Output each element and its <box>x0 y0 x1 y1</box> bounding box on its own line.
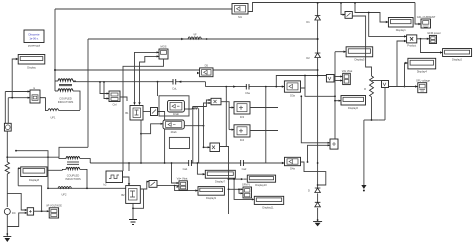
wire into SB1 <box>341 3 345 15</box>
wire into S2 <box>141 124 163 134</box>
wire into Display0 <box>12 59 18 98</box>
svg-text:1Fab: 1Fab <box>173 112 179 116</box>
wire x378 stub <box>378 119 385 121</box>
wire y163 bottom rail <box>90 162 284 164</box>
node dot (7.3,157.2) <box>6 156 8 158</box>
wire jog x205.5 <box>205 82 207 87</box>
svg-text:Display10: Display10 <box>255 183 267 187</box>
wire bottom loop to sum <box>7 213 26 227</box>
node dot x55 y70 <box>54 69 56 71</box>
wire y82 rail <box>73 81 206 83</box>
scope IP VOLTAGE <box>46 204 62 218</box>
subsystem S2 <box>163 120 184 134</box>
wires VM2 to scope2 <box>334 77 342 81</box>
svg-text:GFL voltage: GFL voltage <box>416 78 431 82</box>
wire M4 out <box>250 130 278 132</box>
svg-text:Display1: Display1 <box>396 28 407 32</box>
svg-text:Display7: Display7 <box>215 179 226 183</box>
node dot chain y163 <box>317 162 319 164</box>
capacitor Cba on y86.6 <box>247 84 249 90</box>
wire into Display5 <box>335 51 346 53</box>
product block <box>407 35 417 48</box>
node dot (87,187.4) <box>86 187 88 189</box>
svg-text:Cba: Cba <box>245 91 250 95</box>
sum block <box>27 208 33 215</box>
arrow on y86.6 <box>233 85 236 87</box>
svg-text:Vd= Vbat: Vd= Vbat <box>177 176 188 180</box>
wire into Display4 <box>405 63 408 87</box>
wire x48 drop <box>16 151 48 189</box>
wire gate drop x129 <box>128 163 130 171</box>
wire into Display8 <box>18 168 20 186</box>
arrow into MD4 <box>282 162 285 164</box>
wire PG out <box>123 177 130 185</box>
svg-text:INDUCTORS: INDUCTORS <box>65 177 81 181</box>
wire MD3 bypass up <box>276 76 326 87</box>
wire product out <box>417 38 429 40</box>
svg-text:Display9: Display9 <box>206 196 217 200</box>
display Display7 <box>205 170 235 183</box>
wire top to GFL current scope <box>415 3 421 25</box>
svg-text:I/P VOLTAGE: I/P VOLTAGE <box>46 204 62 208</box>
wires into Vdc Vbat scope <box>172 163 179 183</box>
wire SB1 out down to load <box>352 16 371 76</box>
mosfet block B1 <box>125 106 143 121</box>
mosfet subsystem M3 <box>234 102 250 119</box>
node dot (341,3) <box>340 2 342 4</box>
wire MD4 out <box>301 162 326 185</box>
wires B1 gates / MOS driver <box>120 52 159 104</box>
capacitor CoL on y82 <box>174 79 176 85</box>
diode D1 <box>315 16 321 21</box>
voltmeter VM <box>382 81 389 88</box>
node dot chain y185 <box>317 184 319 186</box>
svg-text:GFM V: GFM V <box>242 182 250 186</box>
svg-text:Product: Product <box>407 44 416 48</box>
svg-text:powergui: powergui <box>28 44 41 48</box>
wires into M2 <box>5 92 29 124</box>
wire into SBb <box>204 146 210 148</box>
display Display1 <box>388 18 413 33</box>
wire S2 out <box>184 125 203 127</box>
wire bottom jog <box>364 119 378 121</box>
wire to Display9 <box>175 186 198 191</box>
ground chain bottom <box>317 219 319 221</box>
inductor UF2 <box>58 187 72 189</box>
wire long vertical x335 <box>334 52 336 139</box>
display Display2 <box>443 49 472 62</box>
svg-text:2Fab: 2Fab <box>171 130 177 134</box>
svg-text:Discrete: Discrete <box>28 33 39 37</box>
wire y188.3 rail <box>48 187 126 189</box>
svg-text:D5: D5 <box>205 64 209 68</box>
diode chain vertical <box>317 3 319 221</box>
ground right <box>361 185 366 189</box>
display Display4 <box>408 58 436 73</box>
inductor LF1 <box>40 98 80 111</box>
svg-text:Display6: Display6 <box>348 106 359 110</box>
display Display9 <box>198 187 224 200</box>
wire into Display6 <box>335 100 341 102</box>
wire B2 snubber loop <box>133 189 144 208</box>
wire to Display2 <box>421 39 443 53</box>
DC source <box>4 209 10 215</box>
wire sum out to scope <box>34 210 49 212</box>
svg-text:Display: Display <box>27 66 36 70</box>
ground left <box>3 236 11 238</box>
wire B2 loop <box>140 182 148 189</box>
wire into Display11 <box>234 179 254 199</box>
node dot (12.2,97.7) <box>11 97 13 99</box>
wire into SBc in1 <box>301 96 329 143</box>
svg-text:D: D <box>308 189 310 193</box>
diode D2 <box>315 53 321 58</box>
ground B2 <box>129 220 137 225</box>
dot (226.3,86.6) <box>225 86 227 88</box>
svg-text:INDUCTORS: INDUCTORS <box>58 100 74 104</box>
wire S1 top feed <box>157 82 159 96</box>
wire load bottom <box>371 97 373 120</box>
svg-text:CoL: CoL <box>172 87 177 91</box>
wire M3 out <box>250 107 278 109</box>
wire MD3 out <box>301 88 336 96</box>
wire below DC source <box>6 215 8 237</box>
scope GFMV <box>242 182 252 198</box>
diode D3 <box>315 188 321 193</box>
capacitor Cb2 on y163 <box>189 160 192 166</box>
wire left vertical x55 <box>54 9 56 91</box>
wire MD4 out up to SBc <box>308 145 330 162</box>
MOS driver block <box>159 45 168 59</box>
node dot (48,157.2) <box>47 156 49 158</box>
wire display8 sense drop <box>18 186 41 211</box>
wire to GFMV scope in2 <box>239 189 243 193</box>
wire x123 vertical <box>123 59 164 171</box>
node dot (206.6,39) <box>206 38 208 40</box>
wire M1 out to top rail y3 <box>248 3 415 12</box>
wire x265.8 down <box>265 87 267 163</box>
scope SC2 <box>342 69 353 85</box>
voltmeter VM2 <box>326 75 334 83</box>
svg-text:M1: M1 <box>238 15 242 19</box>
wire B2 bottom to ground <box>132 203 134 219</box>
svg-text:B2: B2 <box>121 193 125 197</box>
wire MD3 out node up <box>304 76 306 89</box>
svg-text:D3a: D3a <box>290 93 295 97</box>
resistor load R3 <box>370 76 374 97</box>
wire VM out to GFL voltage <box>389 86 418 88</box>
svg-text:DC: DC <box>12 211 16 215</box>
arrow into MD3 <box>282 85 285 87</box>
svg-text:Dr3: Dr3 <box>240 115 245 119</box>
pulse generator PG <box>104 171 123 187</box>
powergui block <box>24 30 44 48</box>
dot (157.5,81.7) S1 feed <box>157 81 159 83</box>
svg-text:UF1: UF1 <box>51 116 56 120</box>
wire display8 right stub <box>47 169 62 171</box>
mosfet block B2 <box>121 186 140 204</box>
wire into Display10 <box>229 178 243 180</box>
arrow on y39 wire <box>181 38 184 40</box>
display Display5 <box>346 47 373 62</box>
wire product in2 <box>397 41 406 87</box>
diode block MD4 <box>285 157 301 170</box>
scope Vdc Vbat <box>177 176 188 190</box>
wire branch to product in1 <box>369 13 406 37</box>
wire y86.6 rail <box>206 86 285 88</box>
svg-text:Ca2: Ca2 <box>242 167 247 171</box>
wire into SBa in1 <box>193 100 211 163</box>
wires into R1 pins <box>100 82 109 99</box>
wire SBa out to M3 M4 <box>221 102 229 130</box>
wire top rail y9 <box>55 8 232 10</box>
node dot (355,3) <box>354 2 356 4</box>
gain block SBa <box>211 98 221 105</box>
svg-text:B1: B1 <box>125 111 129 115</box>
scope GFL voltage <box>416 78 431 92</box>
svg-text:Dr4: Dr4 <box>240 138 245 142</box>
mosfet subsystem M4 <box>234 125 250 142</box>
svg-text:m: m <box>33 87 35 90</box>
svg-text:Ctrl: Ctrl <box>112 103 116 107</box>
svg-text:GFL-CURRENT: GFL-CURRENT <box>417 15 436 19</box>
inductor VF <box>188 37 202 39</box>
svg-text:D1: D1 <box>306 20 310 24</box>
svg-text:Display4: Display4 <box>417 70 428 74</box>
node dot (265.8,87.3) <box>265 86 267 88</box>
svg-text:Display2: Display2 <box>452 58 463 62</box>
wire CM1 out down <box>158 112 165 164</box>
svg-text:Display11: Display11 <box>262 206 274 210</box>
block M2 <box>30 87 40 103</box>
wire B1 bottom drop <box>140 120 142 163</box>
wire SBb out down to scope <box>220 147 229 215</box>
wire VM top tick <box>372 80 382 82</box>
wire VM bottom <box>384 88 386 121</box>
display Display11 <box>254 196 283 209</box>
wire into SBa in2 <box>204 103 211 147</box>
node dot x90 y39 junction <box>317 38 319 40</box>
current measurement SB1 <box>345 12 352 19</box>
arrow left of CoL <box>179 81 182 83</box>
scope GFL current <box>417 15 436 28</box>
subsystem S1 wire box <box>159 96 189 116</box>
svg-text:Ca1: Ca1 <box>183 167 188 171</box>
coupled inductors 2 <box>59 157 90 189</box>
AC source V1 <box>4 123 11 131</box>
wire source bottom <box>6 131 8 162</box>
diode D4 <box>315 202 321 207</box>
svg-text:1e-06 s.: 1e-06 s. <box>29 37 39 41</box>
wire below R2 <box>6 174 8 207</box>
mosfet block M1 <box>232 4 248 20</box>
svg-text:UF2: UF2 <box>62 193 67 197</box>
svg-text:R: R <box>364 87 366 91</box>
svg-text:Display8: Display8 <box>29 178 40 182</box>
svg-text:MOS: MOS <box>161 45 167 49</box>
wire branch to Display1 <box>355 3 388 22</box>
inductor La <box>184 108 199 163</box>
svg-text:D4a: D4a <box>290 166 295 170</box>
svg-text:GFM power: GFM power <box>427 31 441 35</box>
scope GFM power <box>427 31 441 44</box>
wire y70 mid rail <box>55 69 318 71</box>
svg-text:VF: VF <box>193 33 197 37</box>
arrow into D5 <box>197 72 200 74</box>
coupled inductors 1 <box>55 79 80 110</box>
display Display8 <box>21 167 47 182</box>
wire sense y157.2 <box>7 156 59 158</box>
svg-text:D2: D2 <box>306 56 310 60</box>
wire box S3 <box>169 137 189 148</box>
gain block SBb <box>210 143 220 152</box>
wire x226.3 drop <box>225 87 227 147</box>
wire x88 vertical <box>87 39 89 147</box>
wire into Display7 <box>197 163 204 174</box>
node dot chain y39 <box>317 38 319 40</box>
svg-text:Vdc Vbat: Vdc Vbat <box>342 69 353 73</box>
subsystem S1 <box>168 100 185 116</box>
display Display10 <box>247 175 275 187</box>
resistor R2 <box>5 162 9 174</box>
block R1 (converter) <box>109 91 120 107</box>
wire y39 rail <box>88 38 318 40</box>
svg-text:Display5: Display5 <box>355 58 366 62</box>
display Display0 <box>18 55 45 70</box>
capacitor Ca2 on y163 <box>241 160 244 166</box>
wire CM2 out <box>157 185 179 187</box>
node dot chain y70 <box>317 69 319 71</box>
diode block MD3 <box>284 81 300 97</box>
current measurement CM2 <box>149 181 157 188</box>
wire ground drop x364 <box>363 120 365 185</box>
wire jog to sum <box>7 193 26 210</box>
wire from x88 vertical <box>59 147 88 157</box>
diode block D5 <box>200 64 213 77</box>
display Display6 <box>341 96 366 111</box>
sum block SBc <box>330 139 338 149</box>
wire B1 to CM1 <box>143 111 151 113</box>
node dot (318,3) <box>317 2 319 4</box>
current measurement CM1 <box>151 108 158 116</box>
